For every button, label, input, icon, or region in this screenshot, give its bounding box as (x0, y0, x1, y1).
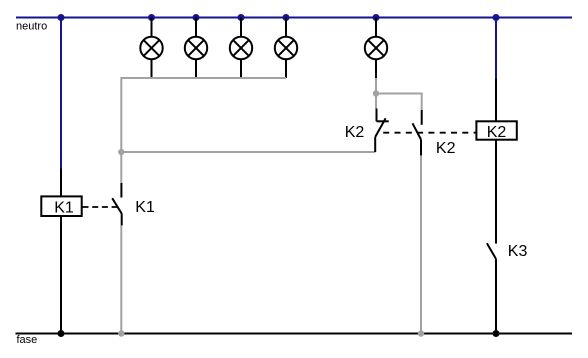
lamp H4 (275, 18, 297, 79)
junction fase / K2 contact (gray) (418, 330, 424, 336)
junction neutro / lamp H4 (283, 14, 290, 21)
wire phase bus (net fase) (16, 333, 573, 335)
svg-text:neutro: neutro (16, 21, 47, 33)
wire node A to K2 NC contact (gray horizontal) (121, 151, 375, 153)
svg-text:K1: K1 (54, 199, 74, 216)
wire node A down to K1 contact (gray) (120, 152, 122, 183)
wire neutro drop to K1 coil (blue segment) (60, 18, 62, 169)
mechanical link K1 (dashed) (83, 206, 120, 208)
svg-text:K2: K2 (436, 140, 456, 157)
junction fase / K1 contact (gray) (118, 330, 124, 336)
junction fase / K1 coil (58, 330, 65, 337)
svg-text:fase: fase (17, 334, 38, 346)
svg-text:K1: K1 (135, 199, 155, 216)
junction neutro / lamp H3 (238, 14, 245, 21)
lamp H2 (185, 18, 207, 79)
lamp H1 (140, 18, 162, 79)
contact K2 NC (375, 109, 389, 153)
wire K1 contact to fase (gray) (120, 225, 122, 333)
junction neutro / K1 coil branch (58, 14, 65, 21)
contact K2 NO (413, 110, 422, 155)
junction neutro / lamp H1 (148, 14, 155, 21)
svg-text:K2: K2 (487, 124, 507, 141)
wire lamp bus (gray) (121, 78, 286, 152)
wire K1 coil lead (black from blue) (60, 169, 62, 196)
junction gray node B (376,93.5) (373, 90, 379, 96)
wire K2 NO contact to fase (gray) (420, 155, 422, 333)
coil K2 (476, 121, 516, 141)
wire lamp H5 to node B (gray) (375, 78, 377, 109)
switch K3 (NO) (487, 243, 496, 333)
wire node B to K2 NO contact (gray) (376, 94, 422, 111)
mechanical link K2 (dashed) (383, 132, 476, 134)
wire K2 coil lead (black from blue) (495, 79, 497, 121)
junction neutro / K2 coil branch (493, 14, 500, 21)
junction neutro / lamp H2 (193, 14, 200, 21)
lamp H3 (230, 18, 252, 79)
wire K2 coil to K3 (black) (495, 141, 497, 244)
junction fase / K3 (493, 330, 500, 337)
junction neutro / lamp H5 (373, 14, 380, 21)
contact K1 (NO) (112, 183, 122, 225)
wire neutro drop to K2 coil (blue segment) (495, 18, 497, 79)
lamp H5 (365, 18, 387, 79)
wire K1 coil to fase (black) (60, 217, 62, 334)
svg-text:K2: K2 (345, 124, 365, 141)
svg-text:K3: K3 (508, 243, 528, 260)
coil K1 (41, 196, 81, 216)
junction gray node A (122,152) (118, 149, 124, 155)
wire neutral bus (net neutro) (16, 17, 572, 19)
